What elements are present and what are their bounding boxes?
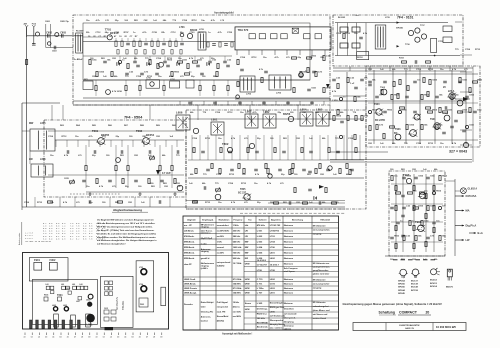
svg-text:b7: b7: [146, 337, 148, 339]
svg-text:Dig.Ph.A: Dig.Ph.A: [466, 223, 477, 227]
svg-text:19 kHz: 19 kHz: [233, 302, 240, 304]
svg-text:a2: a2: [110, 337, 112, 339]
svg-text:L 707: L 707: [257, 293, 263, 295]
svg-text:5.2: 5.2: [76, 237, 79, 240]
svg-text:T604: T604: [57, 294, 63, 297]
svg-text:BC158: BC158: [411, 290, 419, 292]
svg-text:wird Symm.: wird Symm.: [284, 270, 296, 273]
svg-text:UKW-Beob.: UKW-Beob.: [184, 284, 196, 286]
svg-text:eingang: eingang: [201, 251, 210, 253]
svg-text:m=30%/1kHz: m=30%/1kHz: [217, 230, 230, 232]
svg-text:LW-Beob.: LW-Beob.: [184, 230, 194, 232]
svg-text:T901: T901: [430, 118, 436, 121]
svg-text:am - ZF: am - ZF: [184, 225, 192, 227]
svg-text:und 40%: und 40%: [233, 315, 242, 318]
svg-text:RC104F: RC104F: [76, 30, 84, 33]
svg-text:Ratio-Multipl.: Ratio-Multipl.: [201, 301, 215, 304]
svg-text:C704: C704: [136, 75, 142, 78]
svg-text:Maximum: Maximum: [284, 236, 294, 238]
svg-text:ELEKTROAKUSTIK: ELEKTROAKUSTIK: [399, 324, 420, 327]
svg-text:BF256: BF256: [398, 287, 405, 289]
svg-text:104 MHz: 104 MHz: [233, 292, 241, 295]
svg-text:2n BRmF: 2n BRmF: [74, 59, 84, 61]
svg-text:LW: LW: [245, 230, 248, 232]
svg-text:f=40kHz: f=40kHz: [217, 265, 225, 268]
svg-text:b9: b9: [88, 337, 90, 339]
svg-text:BF255: BF255: [398, 284, 405, 286]
svg-text:unmoduliert: unmoduliert: [217, 224, 229, 227]
svg-text:BC137: BC137: [411, 281, 419, 283]
svg-text:R712: R712: [62, 136, 68, 138]
svg-text:L 604: L 604: [257, 246, 263, 249]
svg-text:C708: C708: [227, 32, 233, 34]
svg-text:(50kHz): (50kHz): [217, 321, 225, 323]
svg-text:MW: MW: [29, 122, 34, 125]
svg-text:Abgl.elem.: Abgl.elem.: [271, 218, 282, 221]
svg-text:C603: C603: [52, 51, 57, 53]
svg-text:100n: 100n: [412, 191, 417, 193]
svg-text:C704: C704: [24, 201, 30, 204]
svg-text:R917/R940: R917/R940: [257, 321, 269, 324]
svg-text:COMPACT: COMPACT: [399, 311, 418, 315]
svg-text:gemäß d.: gemäß d.: [201, 258, 211, 260]
svg-text:BF244: BF244: [398, 289, 405, 292]
svg-text:C703: C703: [114, 32, 120, 34]
svg-text:R712: R712: [475, 49, 481, 51]
svg-text:6.2: 6.2: [70, 237, 73, 240]
svg-text:R707: R707: [124, 32, 130, 34]
svg-text:eingang: eingang: [201, 265, 210, 267]
svg-text:R712: R712: [345, 33, 351, 35]
svg-text:F903: F903: [140, 304, 144, 306]
svg-text:Abgleich: Abgleich: [187, 218, 196, 221]
svg-text:schwebungsfrei: schwebungsfrei: [313, 305, 329, 308]
svg-text:Stereo/Beid: Stereo/Beid: [217, 315, 229, 318]
svg-text:(Stereo: (Stereo: [233, 306, 241, 309]
svg-text:540 kHz: 540 kHz: [233, 240, 241, 243]
svg-text:4.4 0.2: 4.4 0.2: [25, 237, 33, 240]
svg-text:a8: a8: [153, 337, 155, 339]
svg-text:R923 ges.Osz.: R923 ges.Osz.: [270, 307, 285, 309]
svg-text:C712: C712: [171, 32, 177, 34]
svg-text:Sollwert: Sollwert: [259, 218, 267, 221]
svg-text:BC414: BC414: [430, 285, 438, 288]
svg-text:9.3: 9.3: [62, 237, 65, 240]
svg-text:T904: T904: [443, 112, 449, 115]
svg-text:R712: R712: [192, 20, 198, 22]
svg-text:b5: b5: [60, 337, 62, 339]
svg-text:dämpfung: dämpfung: [284, 322, 295, 324]
svg-text:ausgang: ausgang: [313, 234, 322, 236]
svg-text:L706: L706: [270, 247, 276, 249]
svg-text:L802: L802: [245, 110, 252, 114]
svg-text:L 601: L 601: [257, 230, 263, 232]
svg-text:Die Abst.ZF- (170kHz) Tiefe w: Die Abst.ZF- (170kHz) Tiefe wird von dem…: [97, 229, 155, 232]
svg-text:L705/706: L705/706: [270, 230, 280, 232]
svg-text:GL902 A: GL902 A: [468, 188, 478, 191]
svg-text:L708: L708: [270, 270, 276, 272]
svg-text:MW: MW: [245, 241, 249, 243]
svg-text:327 = 0043: 327 = 0043: [449, 150, 467, 154]
svg-text:Abstimmb.: Abstimmb.: [257, 326, 269, 329]
svg-text:10 202 8001 B/5: 10 202 8001 B/5: [436, 325, 456, 329]
svg-text:6462 / IN: 6462 / IN: [405, 327, 414, 330]
svg-text:kHz: kHz: [245, 225, 249, 227]
svg-text:104 MHz: 104 MHz: [233, 283, 241, 286]
svg-text:20: 20: [426, 311, 430, 315]
svg-text:L803: L803: [263, 110, 270, 114]
svg-text:10.5/10.7: 10.5/10.7: [270, 265, 280, 267]
svg-text:ausgang: ausgang: [313, 288, 322, 290]
svg-text:BF256: BF256: [283, 113, 291, 116]
svg-text:C704: C704: [416, 68, 422, 71]
svg-text:auf Maximum abzugleichen. Die: auf Maximum abzugleichen. Die übrigen Ab…: [97, 239, 157, 242]
svg-text:bestimmt. Es muß daher über d: bestimmt. Es muß daher über die Eingangs…: [97, 232, 156, 235]
svg-text:gang/Stereodec.: gang/Stereodec.: [313, 269, 330, 272]
svg-text:C704: C704: [240, 56, 246, 59]
svg-text:Modulation: Modulation: [219, 218, 230, 221]
svg-text:100n: 100n: [424, 221, 429, 223]
svg-text:platine wird über: platine wird über: [313, 272, 330, 275]
svg-text:Übersprech-: Übersprech-: [284, 317, 296, 320]
svg-text:m=30%: m=30%: [217, 236, 224, 238]
svg-text:Gleichsp.Fkt: Gleichsp.Fkt: [201, 311, 214, 314]
svg-text:Maximum: Maximum: [284, 230, 294, 232]
svg-text:UKW: UKW: [245, 279, 250, 281]
svg-text:C704: C704: [215, 111, 221, 114]
svg-text:UKW: UKW: [245, 288, 250, 290]
svg-text:R604: R604: [44, 294, 48, 297]
svg-text:900 kHz: 900 kHz: [233, 258, 241, 260]
svg-text:C 711: C 711: [257, 284, 263, 286]
svg-text:C 818: C 818: [332, 100, 338, 102]
svg-text:b7: b7: [74, 337, 76, 339]
svg-text:C703: C703: [189, 32, 195, 34]
svg-text:T902: T902: [380, 87, 386, 89]
svg-text:L602: L602: [270, 258, 276, 260]
svg-text:R923 Osz.: R923 Osz.: [257, 314, 268, 316]
svg-text:L60: L60: [80, 284, 83, 286]
svg-text:C712: C712: [95, 32, 101, 34]
svg-text:b1: b1: [31, 337, 33, 339]
svg-text:C612: C612: [66, 288, 70, 290]
svg-text:Maximum: Maximum: [284, 288, 294, 290]
svg-text:1 uF: 1 uF: [350, 83, 355, 85]
svg-text:b1: b1: [103, 337, 105, 339]
svg-text:a6: a6: [139, 337, 141, 339]
svg-text:in den: in den: [201, 244, 208, 246]
svg-text:Maximum: Maximum: [284, 247, 294, 249]
svg-text:TDA 570: TDA 570: [238, 28, 249, 32]
svg-text:MW: MW: [245, 247, 249, 249]
svg-text:L60: L60: [46, 284, 49, 286]
svg-text:L901: L901: [270, 293, 276, 295]
svg-text:MW-Beob.: MW-Beob.: [184, 252, 195, 254]
svg-text:MW-Beob.: MW-Beob.: [184, 241, 195, 243]
svg-text:0.7 Veff: 0.7 Veff: [162, 172, 171, 175]
svg-text:L604: L604: [40, 122, 46, 125]
svg-text:L601: L601: [270, 252, 276, 254]
svg-text:R707: R707: [199, 32, 205, 34]
svg-text:C704: C704: [228, 182, 234, 185]
svg-text:b3: b3: [45, 337, 47, 339]
svg-text:Lautsprecheraus.: Lautsprecheraus.: [313, 266, 331, 269]
svg-text:BC412: BC412: [430, 279, 438, 282]
svg-text:UKW-Oszil.: UKW-Oszil.: [184, 279, 196, 281]
svg-text:MW-Beob.: MW-Beob.: [184, 247, 195, 249]
svg-text:a0: a0: [96, 337, 98, 339]
svg-text:T903: T903: [395, 128, 401, 131]
svg-text:am Lautsprecher: am Lautsprecher: [313, 283, 330, 286]
svg-text:100n: 100n: [430, 206, 435, 208]
svg-text:C704: C704: [348, 137, 354, 140]
svg-text:10.6/10.8: 10.6/10.8: [257, 260, 267, 262]
svg-text:R712: R712: [428, 69, 434, 71]
svg-text:Maximum: Maximum: [284, 279, 294, 281]
svg-text:L603: L603: [63, 305, 67, 307]
svg-text:L 603: L 603: [257, 241, 263, 243]
svg-text:mit Stereo und: mit Stereo und: [313, 313, 328, 316]
svg-text:4.7k 10/16: 4.7k 10/16: [112, 90, 123, 93]
svg-text:BF245: BF245: [396, 27, 403, 30]
svg-text:L903: L903: [270, 288, 276, 290]
svg-text:87.5 MHz: 87.5 MHz: [233, 279, 242, 281]
svg-text:T802: T802: [222, 142, 229, 146]
svg-text:Maximum: Maximum: [284, 225, 294, 227]
svg-text:Einstellregler: Einstellregler: [270, 302, 284, 305]
svg-text:C715 (707: C715 (707: [257, 265, 268, 267]
svg-text:auf maximale: auf maximale: [284, 314, 298, 316]
svg-text:eingang: eingang: [201, 227, 210, 229]
svg-text:1600 kHz: 1600 kHz: [233, 247, 242, 249]
svg-text:L708: L708: [257, 270, 263, 272]
svg-text:rechter Kanal: rechter Kanal: [313, 317, 327, 320]
svg-text:R712: R712: [241, 183, 247, 185]
svg-text:UKW: UKW: [245, 284, 250, 286]
svg-text:100n: 100n: [430, 176, 435, 178]
svg-text:C704: C704: [416, 142, 422, 145]
svg-text:10.7 MHz: 10.7 MHz: [233, 263, 242, 265]
svg-text:Gleichspannung gegen Masse gem: Gleichspannung gegen Masse gemessen (ohn…: [343, 302, 443, 306]
svg-text:Drehfrequ.: Drehfrequ.: [257, 309, 268, 311]
svg-text:buchse: buchse: [201, 321, 209, 323]
svg-text:NF-Voltmeter: NF-Voltmeter: [313, 225, 326, 228]
svg-text:Hilfe die Betriebsspannung von: Hilfe die Betriebsspannung von 190 V auf…: [97, 222, 156, 225]
svg-text:BC138: BC138: [411, 284, 419, 286]
svg-text:MW-Beob.: MW-Beob.: [184, 258, 195, 260]
svg-text:7F4 - 0504: 7F4 - 0504: [124, 116, 143, 120]
svg-text:478 kHz: 478 kHz: [257, 224, 266, 227]
svg-text:Prüf-Signal: Prüf-Signal: [217, 301, 229, 304]
svg-text:NF-Voltmeter: NF-Voltmeter: [313, 279, 326, 282]
svg-text:(ohne Mono- und: (ohne Mono- und: [313, 310, 331, 312]
svg-text:KW-Beob.: KW-Beob.: [184, 236, 195, 238]
svg-text:UKW: UKW: [245, 264, 250, 266]
svg-text:6V/0.05A: 6V/0.05A: [466, 194, 477, 198]
svg-text:R712: R712: [37, 202, 43, 204]
svg-text:MW: MW: [245, 252, 249, 254]
svg-text:Maximum: Maximum: [284, 241, 294, 243]
svg-text:SN 76115 N: SN 76115 N: [116, 297, 119, 310]
svg-text:NF-Voltmeter am: NF-Voltmeter am: [313, 262, 330, 265]
svg-text:Stereo: Stereo: [245, 302, 252, 305]
svg-text:87.5 MHz: 87.5 MHz: [233, 288, 242, 290]
svg-text:L703: L703: [270, 236, 276, 238]
svg-text:T904: T904: [374, 103, 380, 106]
svg-text:TBA 651: TBA 651: [122, 300, 125, 310]
svg-text:Maximum: Maximum: [284, 252, 294, 254]
svg-text:anz. sichern: anz. sichern: [270, 327, 283, 329]
svg-text:BF255: BF255: [101, 133, 110, 137]
svg-text:a8: a8: [81, 337, 83, 339]
svg-text:L606: L606: [176, 111, 183, 115]
svg-text:C704: C704: [182, 19, 188, 22]
svg-text:Empfangsb.: Empfangsb.: [202, 219, 214, 221]
svg-text:L60: L60: [72, 284, 75, 286]
svg-text:BC413: BC413: [430, 282, 438, 285]
svg-text:60pF/125pF: 60pF/125pF: [201, 238, 213, 240]
svg-text:m=30%: m=30%: [217, 252, 224, 254]
svg-text:DR702: DR702: [357, 57, 363, 59]
svg-text:a4: a4: [124, 336, 126, 339]
svg-text:9.0: 9.0: [56, 237, 59, 240]
svg-text:BD375: BD375: [446, 287, 454, 289]
svg-text:100n: 100n: [454, 95, 459, 97]
svg-text:C 715: C 715: [257, 279, 264, 281]
svg-text:7.5: 7.5: [89, 237, 92, 240]
svg-text:BF254: BF254: [398, 280, 405, 283]
svg-text:750 kHz: 750 kHz: [233, 252, 241, 254]
svg-text:Gleichheit: Gleichheit: [284, 308, 294, 311]
svg-text:L705: L705: [199, 29, 205, 31]
svg-text:L704: L704: [270, 240, 276, 243]
svg-text:KW: KW: [245, 258, 248, 260]
svg-text:LW: LW: [466, 238, 470, 242]
svg-text:auf Maximum abzugleichen !: auf Maximum abzugleichen !: [97, 244, 126, 246]
svg-text:entsprechend: entsprechend: [217, 261, 231, 264]
svg-text:F901: F901: [34, 258, 40, 262]
svg-text:280 kHz: 280 kHz: [233, 236, 241, 238]
svg-text:C605: C605: [60, 31, 66, 34]
svg-text:Arbeitspunkte: Arbeitspunkte: [18, 232, 21, 245]
svg-text:mod. FM: mod. FM: [217, 312, 226, 314]
svg-text:Übersprechn: Übersprechn: [270, 319, 284, 322]
svg-text:b5: b5: [132, 337, 134, 339]
svg-text:UKW: UKW: [245, 293, 250, 295]
svg-text:LW: LW: [245, 236, 248, 238]
svg-text:Maximum: Maximum: [284, 293, 294, 295]
svg-text:L607: L607: [76, 301, 80, 303]
svg-text:Ausstattungsbild: Ausstattungsbild: [214, 12, 234, 15]
svg-text:C704: C704: [192, 137, 198, 140]
svg-text:100n: 100n: [402, 110, 407, 112]
svg-text:a6: a6: [67, 337, 69, 339]
svg-text:unmod.: unmod.: [217, 247, 225, 249]
svg-text:200 kHz: 200 kHz: [233, 230, 241, 232]
svg-text:100n: 100n: [92, 60, 97, 62]
svg-text:R712: R712: [205, 202, 211, 204]
svg-text:BC148: BC148: [411, 286, 419, 289]
svg-text:L60: L60: [61, 284, 64, 286]
svg-text:sichern: sichern: [284, 327, 292, 330]
svg-text:L601: L601: [87, 323, 93, 327]
svg-text:a4: a4: [52, 336, 54, 339]
svg-text:B+A: B+A: [478, 231, 483, 235]
svg-text:ukw-ZF: ukw-ZF: [184, 264, 192, 266]
svg-text:L703: L703: [139, 267, 143, 269]
svg-text:UKW: UKW: [245, 309, 250, 311]
svg-text:C704: C704: [156, 57, 162, 60]
svg-text:Minimum: Minimum: [284, 303, 293, 305]
svg-text:R712: R712: [428, 143, 434, 145]
svg-text:Antennen-: Antennen-: [201, 316, 212, 319]
svg-text:BF254: BF254: [146, 133, 155, 137]
svg-text:1 MHz: 1 MHz: [233, 225, 239, 227]
svg-text:L 602: L 602: [257, 236, 263, 238]
svg-text:LPU MAXL SB TG UKW M: LPU MAXL SB TG UKW MW DF: [25, 240, 51, 243]
svg-text:a0: a0: [24, 337, 26, 339]
svg-text:NF-Voltmeter: NF-Voltmeter: [313, 301, 326, 304]
svg-text:Maximum: Maximum: [284, 284, 294, 286]
svg-text:C704: C704: [336, 32, 342, 35]
svg-text:L902: L902: [270, 279, 276, 281]
svg-text:C615: C615: [104, 308, 108, 310]
svg-text:C605 70p: C605 70p: [60, 21, 70, 23]
svg-text:C704: C704: [192, 201, 198, 204]
svg-text:Hilfsmittel: Hilfsmittel: [320, 218, 330, 221]
svg-text:C704: C704: [48, 135, 54, 138]
svg-text:BF245: BF245: [398, 292, 405, 295]
svg-text:Abgleichanweisung: Abgleichanweisung: [113, 208, 142, 212]
svg-text:C708: C708: [152, 32, 158, 34]
svg-text:R712: R712: [228, 112, 234, 114]
svg-text:antenne =: antenne =: [201, 232, 212, 235]
svg-text:100n: 100n: [477, 110, 482, 112]
svg-text:R712: R712: [252, 57, 258, 59]
svg-text:L701/L702: L701/L702: [270, 225, 281, 227]
svg-text:Bemerkung: Bemerkung: [292, 219, 304, 221]
svg-text:L704: L704: [139, 283, 143, 286]
svg-text:C704: C704: [465, 48, 471, 51]
svg-text:L 605: L 605: [257, 252, 263, 254]
svg-text:(=240 k: (=240 k: [201, 267, 209, 270]
svg-text:L603: L603: [40, 158, 46, 161]
svg-text:L805: L805: [316, 108, 323, 112]
svg-text:L706: L706: [276, 93, 282, 95]
svg-text:C619: C619: [86, 300, 90, 302]
svg-text:L 709a: L 709a: [257, 288, 265, 290]
svg-text:entsprechd: entsprechd: [217, 306, 229, 309]
svg-text:b3: b3: [117, 337, 119, 339]
svg-text:Schaltung: Schaltung: [379, 311, 395, 315]
svg-text:C602: C602: [46, 31, 52, 34]
svg-text:abgeglichen werden. Die Meßb: abgeglichen werden. Die Meßbandbreitenqu…: [97, 236, 156, 239]
svg-text:UKW-Zusatz: UKW-Zusatz: [184, 287, 198, 290]
svg-text:L905: L905: [270, 312, 276, 314]
svg-text:Maximum: Maximum: [284, 264, 294, 266]
svg-text:100 kHz: 100 kHz: [257, 318, 266, 320]
svg-text:C721: C721: [270, 284, 276, 286]
svg-text:5.0: 5.0: [83, 237, 86, 240]
svg-text:Decoder: Decoder: [184, 304, 193, 306]
svg-text:MA: MA: [466, 208, 470, 212]
svg-text:am Lautsprecher-: am Lautsprecher-: [313, 229, 331, 232]
svg-text:L703: L703: [179, 26, 185, 29]
svg-text:mit 1kHz: mit 1kHz: [233, 311, 241, 314]
svg-text:Vor Abgleich MW ablisten und: Vor Abgleich MW ablisten und oben Eingan…: [97, 219, 154, 222]
svg-text:L801: L801: [211, 118, 218, 122]
svg-text:Ausweigh mit Meßsender !: Ausweigh mit Meßsender !: [222, 333, 252, 336]
